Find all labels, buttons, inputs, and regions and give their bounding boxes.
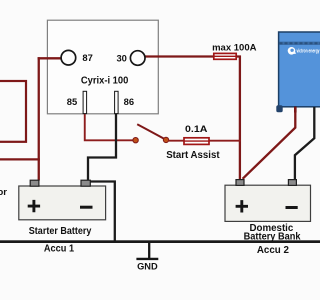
svg-text:or: or bbox=[0, 187, 7, 198]
svg-text:30: 30 bbox=[116, 52, 126, 63]
starter battery plus terminal bbox=[30, 180, 39, 186]
fuse F2 0.1A bbox=[184, 138, 209, 145]
pin 85 bbox=[83, 91, 87, 113]
svg-text:Battery Bank: Battery Bank bbox=[244, 231, 301, 242]
svg-text:Starter Battery: Starter Battery bbox=[29, 226, 92, 237]
svg-text:max 100A: max 100A bbox=[212, 42, 257, 53]
starter battery minus terminal bbox=[81, 180, 90, 186]
wire: junction to relay terminal 87 bbox=[38, 57, 62, 59]
svg-text:Accu 2: Accu 2 bbox=[257, 244, 289, 256]
svg-text:Accu 1: Accu 1 bbox=[44, 243, 74, 255]
svg-text:85: 85 bbox=[67, 96, 77, 107]
domestic battery B2 bbox=[225, 185, 311, 221]
fuse F1 max 100A bbox=[214, 53, 236, 59]
wire: switch to fuse F2 bbox=[168, 140, 185, 142]
wire: relay terminal 30 to fuse F1 bbox=[145, 55, 216, 57]
svg-text:Cyrix-i 100: Cyrix-i 100 bbox=[81, 75, 129, 86]
victron logo bbox=[288, 47, 320, 55]
minus symbol B2 bbox=[286, 206, 298, 209]
domestic battery plus terminal bbox=[236, 180, 244, 186]
terminal circle 87 bbox=[61, 50, 76, 65]
minus symbol B1 bbox=[80, 206, 93, 209]
wire: junction vertical to starter battery plus bbox=[38, 57, 40, 180]
svg-text:Start Assist: Start Assist bbox=[166, 150, 220, 161]
plus symbol B1 bbox=[28, 200, 40, 212]
ground symbol GND bbox=[136, 243, 158, 260]
wire: charger plus lead dark stub bbox=[294, 107, 297, 113]
wire: starter battery minus to ground bus bbox=[90, 182, 115, 242]
svg-text:0.1A: 0.1A bbox=[185, 124, 208, 135]
alternator box (cut off at left edge) bbox=[0, 81, 26, 142]
wire: terminal 85 to switch contact bbox=[85, 112, 133, 140]
svg-text:86: 86 bbox=[124, 96, 134, 107]
switch contact left bbox=[133, 138, 138, 143]
switch contact right bbox=[163, 137, 168, 142]
wire: alternator output to junction (horizontal) bbox=[0, 158, 40, 160]
charger U2 Victron (cut off at right edge) bbox=[276, 32, 320, 112]
svg-text:87: 87 bbox=[82, 52, 92, 63]
wire: charger plus to domestic battery plus bbox=[243, 107, 296, 179]
relay box U1 Cyrix-i 100 bbox=[47, 20, 158, 114]
svg-text:victron energy: victron energy bbox=[297, 48, 320, 54]
wire: terminal 86 down-left to starter battery minus bbox=[88, 112, 116, 181]
terminal circle 30 bbox=[130, 51, 145, 66]
switch S1 blade bbox=[137, 124, 165, 139]
wire: charger minus to domestic battery minus bbox=[295, 107, 314, 179]
ground bus bbox=[0, 240, 320, 243]
svg-text:GND: GND bbox=[137, 262, 158, 272]
wire: fuse F1 to vertical drop bbox=[235, 57, 240, 180]
starter battery B1 bbox=[19, 186, 106, 220]
domestic battery minus terminal bbox=[288, 180, 296, 186]
wire: fuse F2 to main vertical bbox=[208, 140, 241, 142]
pin 86 bbox=[115, 91, 119, 113]
plus symbol B2 bbox=[236, 200, 248, 212]
